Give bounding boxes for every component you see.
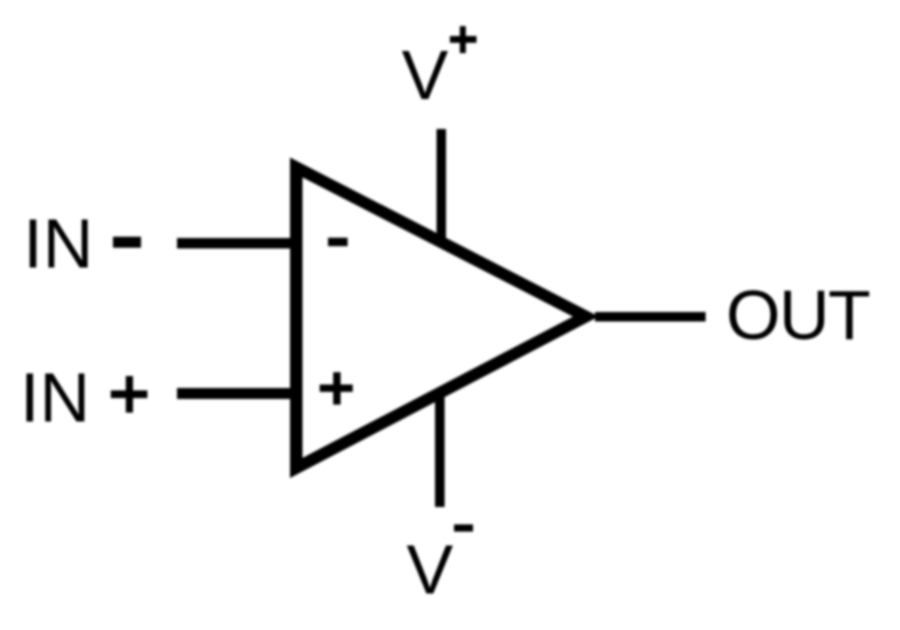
svg-text:IN: IN [20,359,90,437]
svg-text:OUT: OUT [726,276,870,354]
svg-text:IN: IN [23,205,93,283]
svg-text:V: V [402,36,449,114]
svg-text:V: V [407,531,454,609]
